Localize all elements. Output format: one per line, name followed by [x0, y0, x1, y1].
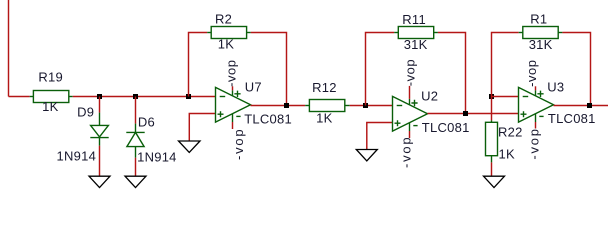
diode D9	[90, 113, 108, 146]
wire R11 right leg	[438, 33, 466, 114]
wire D9 upper	[99, 97, 101, 113]
svg-text:1K: 1K	[499, 147, 515, 162]
node junction R11 left	[363, 103, 368, 108]
wire U3 top supply pin	[535, 86, 537, 90]
resistor R19	[30, 91, 73, 103]
svg-text:1K: 1K	[42, 99, 58, 114]
node junction R1 left / R22	[489, 94, 494, 99]
wire R11 left leg	[366, 33, 395, 106]
wire R1 right leg	[562, 33, 590, 106]
wire U2 output to U3 noninverting input	[428, 113, 519, 115]
op-amp U2	[393, 96, 428, 131]
wire R22 lower	[491, 162, 493, 176]
svg-text:31K: 31K	[529, 37, 553, 52]
wire R22 upper	[491, 97, 493, 121]
svg-text:1N914: 1N914	[137, 150, 177, 165]
ground under U7	[179, 141, 201, 152]
svg-text:TLC081: TLC081	[548, 111, 596, 126]
resistor R22	[486, 120, 498, 162]
wire U7 noninverting to ground	[189, 114, 215, 142]
svg-text:R22: R22	[498, 125, 523, 140]
diode D6	[126, 124, 144, 158]
resistor R2	[207, 27, 251, 39]
wire U7 bottom supply pin	[232, 122, 234, 129]
svg-text:R2: R2	[215, 11, 232, 26]
svg-text:-vop: -vop	[223, 60, 238, 87]
wire U7 top supply pin	[232, 86, 234, 90]
wire U2 noninverting to ground	[367, 123, 393, 150]
svg-text:D9: D9	[77, 104, 94, 119]
wire R2 right leg	[251, 33, 287, 106]
wire input vertical from top edge	[8, 0, 10, 97]
svg-text:R1: R1	[530, 11, 547, 26]
svg-text:1N914: 1N914	[57, 149, 97, 164]
wire input horizontal to R19	[9, 96, 30, 98]
svg-text:U2: U2	[421, 88, 438, 103]
wire U2 top supply pin	[409, 86, 411, 99]
wire U3 output to right edge	[554, 105, 608, 107]
svg-text:R12: R12	[312, 80, 337, 95]
svg-text:D6: D6	[138, 114, 155, 129]
wire D6 upper	[135, 97, 137, 124]
op-amp U7	[216, 87, 251, 122]
svg-text:U7: U7	[245, 79, 262, 94]
svg-text:-vop: -vop	[403, 59, 418, 86]
wire D9 lower	[99, 146, 101, 176]
resistor R12	[305, 100, 350, 112]
wire U7 output to R12	[251, 105, 306, 107]
wire U2 bottom supply pin	[409, 131, 411, 138]
svg-text:-vop: -vop	[231, 128, 246, 161]
node junction feedback R2 left	[186, 94, 191, 99]
svg-text:U3: U3	[547, 79, 564, 94]
wire R12 to U2 inverting input	[350, 105, 393, 107]
svg-text:1K: 1K	[316, 110, 332, 125]
resistor R11	[394, 27, 438, 39]
svg-text:1K: 1K	[218, 36, 234, 51]
wire D6 lower	[135, 158, 137, 176]
ground under D6	[125, 176, 146, 187]
node junction U7 output	[284, 103, 289, 108]
node junction U2 output	[463, 111, 468, 116]
svg-text:31K: 31K	[404, 37, 428, 52]
ground under R22	[484, 176, 505, 187]
svg-text:TLC081: TLC081	[244, 112, 292, 127]
ground under D9	[89, 176, 110, 187]
svg-text:R19: R19	[38, 69, 63, 84]
svg-text:TLC081: TLC081	[422, 120, 470, 135]
node junction U3 output	[587, 103, 592, 108]
ground under U2	[356, 150, 377, 161]
svg-text:-vop: -vop	[524, 60, 539, 87]
wire R2 left leg	[189, 33, 208, 97]
node junction D9 tap	[97, 94, 102, 99]
svg-text:R11: R11	[402, 12, 426, 27]
wire R1 junction to U3 inverting input	[492, 96, 519, 98]
resistor R1	[519, 27, 563, 39]
svg-text:-vop: -vop	[398, 136, 413, 169]
op-amp U3	[519, 87, 554, 122]
svg-text:-vop: -vop	[526, 127, 541, 160]
node junction D6 tap	[133, 94, 138, 99]
wire U3 bottom supply pin	[535, 122, 537, 129]
wire R1 left leg	[492, 33, 519, 97]
wire main row from R19 to U7 inverting input	[73, 96, 216, 98]
